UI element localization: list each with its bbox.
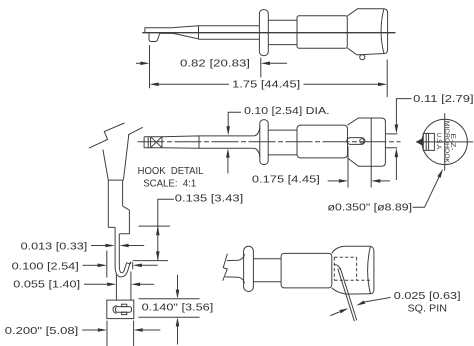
slot pin circle (360, 139, 364, 143)
hook beak tip (127, 262, 131, 264)
dim 0.135 leader and arrows (158, 199, 174, 260)
collar (259, 10, 268, 56)
circle horizontal centerline (416, 141, 473, 143)
plug tabs (122, 304, 127, 306)
tip block (144, 137, 162, 148)
svg-text:0.135 [3.43]: 0.135 [3.43] (175, 192, 243, 204)
ext line hook shoulder (139, 225, 170, 227)
hook tab (149, 33, 160, 42)
circle (422, 119, 467, 164)
collar (260, 120, 268, 165)
svg-text:0.055 [1.40]: 0.055 [1.40] (13, 279, 80, 291)
plug body (423, 133, 434, 150)
svg-text:0.82 [20.83]: 0.82 [20.83] (180, 58, 250, 70)
neck (268, 20, 297, 44)
cup perspective (332, 246, 374, 294)
cup (347, 9, 387, 55)
svg-text:0.10 [2.54] DIA.: 0.10 [2.54] DIA. (244, 105, 330, 117)
nose taper (162, 136, 199, 148)
dim 0.175 arrows (328, 180, 339, 182)
neck (253, 259, 281, 282)
hidden dashed lines (334, 257, 370, 280)
cup bump (360, 55, 365, 60)
ext lines 0.200 (107, 321, 134, 346)
cup (348, 118, 386, 166)
flare to collar (251, 128, 260, 157)
ext lines 0.140 (138, 299, 199, 317)
ext line collar (260, 58, 262, 78)
svg-text:HOOK DETAIL: HOOK DETAIL (138, 165, 204, 177)
barrel (297, 16, 347, 49)
svg-text:0.200" [5.08]: 0.200" [5.08] (5, 325, 78, 337)
dim 0.11 leader (396, 99, 411, 125)
svg-text:SCALE: 4:1: SCALE: 4:1 (143, 178, 196, 190)
square pin slanted (338, 268, 357, 321)
ext lines 0.175 (348, 146, 371, 188)
dim 0.82 line right (270, 62, 287, 64)
ext line cup right (386, 60, 388, 98)
lines below hook (116, 272, 130, 301)
svg-text:SQ. PIN: SQ. PIN (408, 303, 448, 315)
svg-text:0.140" [3.56]: 0.140" [3.56] (142, 302, 214, 314)
break lightning (223, 254, 228, 281)
svg-text:ø0.350" [ø8.89]: ø0.350" [ø8.89] (328, 201, 413, 213)
dim 0.10 leader (228, 112, 241, 126)
dim 1.75 line (159, 83, 229, 85)
neck (268, 130, 297, 155)
svg-text:U.S.A.: U.S.A. (435, 133, 442, 151)
pin back lines (385, 134, 397, 148)
svg-text:0.013 [0.33]: 0.013 [0.33] (21, 241, 88, 253)
body tube (199, 136, 251, 148)
svg-text:0.025 [0.63]: 0.025 [0.63] (394, 290, 461, 302)
svg-text:1.75 [44.45]: 1.75 [44.45] (232, 79, 300, 91)
slot (347, 138, 365, 145)
nose outline (103, 135, 129, 180)
dim 0.82 line left (136, 62, 140, 64)
cup internal line (370, 118, 372, 166)
plug D (113, 306, 117, 314)
barrel (297, 125, 348, 158)
svg-text:MICROHOOK: MICROHOOK (443, 121, 450, 164)
plug pin tip (416, 138, 423, 146)
shaft (108, 180, 129, 234)
barrel (281, 253, 332, 288)
pin top curl (334, 265, 340, 270)
centerline (138, 141, 401, 143)
hook body tip (145, 28, 173, 34)
wire centerline (142, 32, 395, 34)
body tube (199, 26, 260, 39)
break diag B (128, 127, 143, 135)
leader dia 0.350 (413, 173, 442, 208)
plug pin (116, 307, 132, 313)
nose taper (173, 26, 199, 39)
dim 0.025 leader (365, 297, 391, 302)
svg-text:0.175 [4.45]: 0.175 [4.45] (252, 174, 320, 186)
cup mouth inner arc (381, 9, 384, 53)
svg-text:0.11 [2.79]: 0.11 [2.79] (413, 93, 473, 105)
svg-text:0.100 [2.54]: 0.100 [2.54] (12, 261, 79, 273)
nose (225, 254, 245, 283)
break lightning (89, 123, 125, 148)
circle vertical centerline (444, 113, 446, 170)
connector box (107, 300, 134, 319)
ext line hook tip (149, 45, 151, 88)
ext line hook tip (133, 260, 168, 262)
ext lines 0.100 (107, 251, 133, 278)
hook wire J (115, 227, 131, 277)
collar (244, 246, 254, 291)
